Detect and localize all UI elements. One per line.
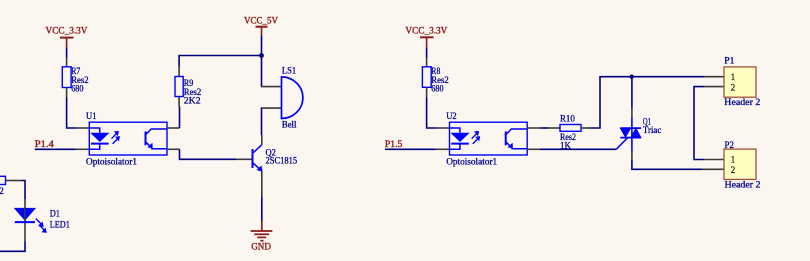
wire U2.3 to Q1 gate bbox=[527, 148, 616, 150]
wire VCC_3.3V to R7 bbox=[66, 48, 68, 58]
U1 LED bbox=[89, 128, 108, 149]
svg-text:GND: GND bbox=[251, 242, 271, 253]
svg-text:P1: P1 bbox=[724, 55, 734, 66]
svg-text:Optoisolator1: Optoisolator1 bbox=[86, 156, 137, 167]
pin Q2 emitter bbox=[261, 171, 263, 197]
wire P1.4 bbox=[35, 148, 76, 150]
pin of fragment resistor bbox=[6, 180, 22, 182]
svg-text:680: 680 bbox=[71, 84, 83, 95]
pin P1.1 bbox=[704, 76, 724, 78]
pin Q1 MT1 bbox=[631, 151, 633, 160]
svg-text:LS1: LS1 bbox=[282, 66, 296, 77]
transistor Q2 bbox=[253, 145, 298, 172]
svg-text:VCC_3.3V: VCC_3.3V bbox=[405, 25, 447, 36]
wire R10 to rail bbox=[591, 77, 632, 128]
pin R7.2 bbox=[66, 88, 68, 98]
U2 LED arrows bbox=[472, 132, 480, 144]
wire bell to Q2 collector bbox=[261, 108, 263, 135]
pin U2.1 bbox=[438, 127, 450, 129]
U2 phototransistor bbox=[506, 129, 528, 149]
svg-text:2K2: 2K2 bbox=[184, 95, 201, 106]
resistor R7 bbox=[62, 66, 88, 94]
wire U1.3 to Q2 base bbox=[167, 149, 252, 159]
resistor R8 bbox=[422, 66, 448, 94]
pin U1.2 bbox=[76, 148, 90, 150]
wire P1.5 bbox=[385, 148, 436, 150]
pin R8.2 bbox=[426, 87, 428, 97]
connector P2 Header 2 bbox=[724, 140, 761, 190]
pin R8.1 bbox=[426, 58, 428, 66]
power symbol VCC_3.3V (right) bbox=[405, 25, 447, 47]
svg-text:Header 2: Header 2 bbox=[725, 179, 761, 190]
pin R7.1 bbox=[66, 58, 68, 67]
wire U1.4 to R9 bbox=[179, 107, 181, 129]
U1 LED arrows bbox=[112, 132, 120, 144]
pin U1.1 bbox=[78, 127, 90, 129]
svg-text:U2: U2 bbox=[446, 111, 457, 122]
svg-text:VCC_3.3V: VCC_3.3V bbox=[46, 25, 88, 36]
wire junction to bell pin bbox=[261, 56, 263, 87]
pin U2.4 (top right) bbox=[527, 127, 540, 129]
svg-text:Header 2: Header 2 bbox=[724, 97, 760, 108]
power symbol VCC_5V bbox=[244, 15, 278, 35]
pin LS1.1 bbox=[261, 86, 282, 88]
D1 LED arrows bbox=[36, 219, 46, 233]
wire junction to P1 pin1 bbox=[632, 76, 704, 78]
op-amp U2 optoisolator body bbox=[446, 111, 527, 167]
pin Q2 collector bbox=[261, 135, 263, 145]
U1 phototransistor bbox=[146, 129, 168, 149]
svg-text:2SC1815: 2SC1815 bbox=[266, 155, 298, 166]
svg-text:680: 680 bbox=[431, 84, 443, 95]
wire Q1 to P2 pin2 bbox=[632, 160, 702, 170]
U2 LED bbox=[450, 128, 469, 149]
svg-text:U1: U1 bbox=[86, 111, 97, 122]
resistor fragment (bottom left, clipped) bbox=[0, 176, 6, 197]
wire P1 pin2 to P2 pin1 bbox=[694, 87, 704, 160]
wire Q2 emitter to GND bbox=[261, 197, 263, 221]
wire D1 to left edge bbox=[0, 241, 25, 251]
pin R9.2 bbox=[178, 97, 180, 107]
wire junction down to triac bbox=[631, 77, 633, 108]
pin P1.2 bbox=[704, 86, 724, 88]
svg-text:P2: P2 bbox=[725, 140, 735, 151]
power symbol VCC_3.3V (left) bbox=[46, 25, 88, 47]
wire VCC_5V down bbox=[261, 36, 263, 56]
svg-text:R10: R10 bbox=[560, 114, 575, 125]
wire VCC_3.3V to R8 bbox=[426, 48, 428, 59]
svg-text:2: 2 bbox=[731, 82, 735, 93]
wire to D1 bbox=[21, 181, 25, 200]
speaker LS1 Bell bbox=[282, 66, 303, 131]
resistor R9 bbox=[175, 77, 201, 107]
svg-text:D1: D1 bbox=[50, 208, 60, 219]
pin R10.2 bbox=[581, 127, 591, 129]
op-amp U1 optoisolator body bbox=[86, 111, 167, 167]
pin LS1.2 bbox=[261, 107, 282, 109]
pin U2.2 bbox=[436, 148, 450, 150]
wire R8 to U2 pin1 bbox=[427, 97, 438, 128]
diode D1 LED1 bbox=[15, 199, 70, 241]
pin Q1 MT2 bbox=[631, 108, 633, 118]
svg-text:Bell: Bell bbox=[282, 120, 297, 131]
svg-text:2: 2 bbox=[731, 165, 735, 176]
svg-text:Optoisolator1: Optoisolator1 bbox=[446, 156, 497, 167]
pin U1.4 (top right) bbox=[167, 127, 180, 129]
svg-text:Res2: Res2 bbox=[0, 186, 4, 197]
svg-text:LED1: LED1 bbox=[50, 220, 70, 231]
svg-text:Triac: Triac bbox=[643, 125, 662, 136]
ground GND bbox=[251, 221, 273, 253]
node junction triac rail bbox=[630, 75, 634, 79]
pin R10.1 bbox=[549, 127, 561, 129]
transistor Q1 triac bbox=[616, 116, 662, 151]
node junction at 5V rail bbox=[259, 53, 264, 58]
wire R9 to 5V rail bbox=[179, 56, 261, 67]
wire R7 to U1 pin1 bbox=[67, 98, 78, 129]
pin P2.1 bbox=[704, 159, 724, 161]
svg-text:VCC_5V: VCC_5V bbox=[244, 15, 278, 26]
connector P1 Header 2 bbox=[724, 55, 760, 107]
pin P2.2 bbox=[702, 168, 725, 170]
wire U2.4 to R10 bbox=[540, 127, 549, 129]
resistor R10 bbox=[560, 114, 581, 152]
pin R9.1 bbox=[178, 67, 180, 77]
